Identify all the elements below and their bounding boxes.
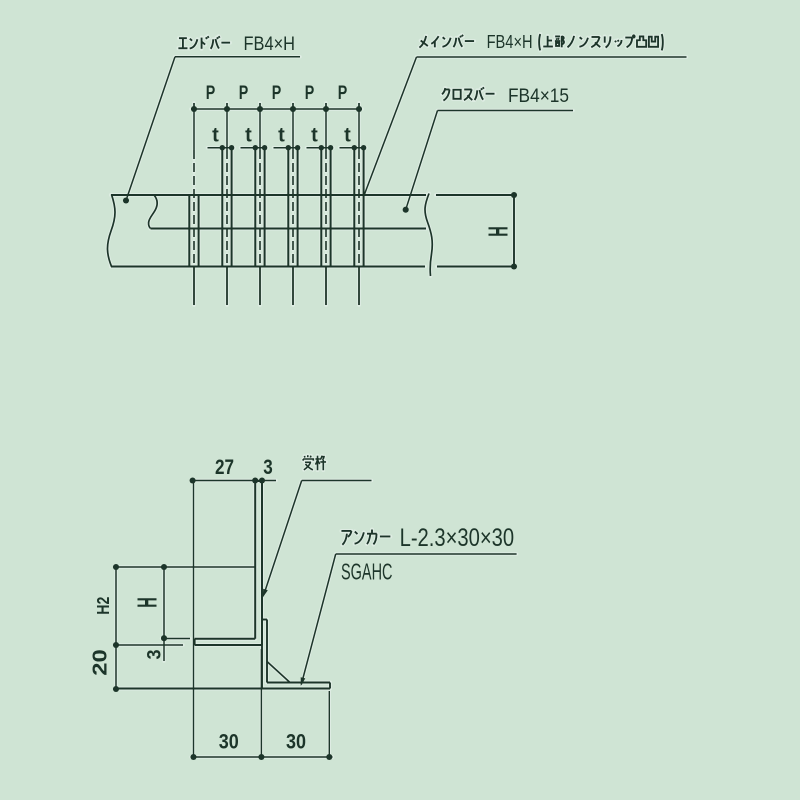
cross bar leader dot — [403, 207, 409, 213]
H2/20 dimension line — [115, 567, 117, 689]
H2 dim dot mid — [113, 642, 119, 648]
grating top reference line — [116, 566, 256, 568]
svg-text:27: 27 — [215, 455, 234, 479]
svg-text:t: t — [245, 125, 252, 147]
svg-text:H: H — [132, 597, 163, 608]
svg-text:FB4×15: FB4×15 — [508, 85, 569, 107]
t dim dot L bar5 — [319, 145, 324, 150]
cross bar top edge — [111, 194, 426, 196]
svg-text:30: 30 — [286, 730, 306, 754]
main bar 4 centerline ext — [292, 109, 294, 150]
27 dim dot left — [190, 477, 196, 483]
t dim dot R bar5 — [328, 145, 333, 150]
anchor vertical right edge — [266, 620, 268, 683]
svg-text:P: P — [272, 83, 282, 104]
3 dim dot right — [259, 477, 265, 483]
main bar 4 right edge — [297, 149, 299, 267]
svg-text:P: P — [338, 83, 348, 104]
ukewaku leader arrowhead — [263, 589, 268, 598]
svg-text:FB4×H: FB4×H — [244, 33, 296, 55]
main bar 6 left edge — [353, 149, 355, 267]
main bar 3 centerline tail — [259, 267, 261, 306]
H dimension line — [163, 567, 165, 661]
main bar 2 centerline ext — [226, 109, 228, 150]
frame horizontal leg bottom edge — [195, 644, 262, 646]
label main bar note kana — [539, 34, 540, 50]
svg-text:t: t — [311, 125, 318, 147]
main bar label underline — [417, 56, 687, 58]
label cross bar kana — [442, 88, 449, 100]
svg-text:3: 3 — [145, 650, 166, 660]
main bar 3 left edge — [254, 149, 256, 267]
main bar 1 right edge — [198, 195, 200, 267]
main bar 5 centerline dashed — [325, 150, 327, 267]
main bar 3 right edge — [264, 149, 266, 267]
svg-text:3: 3 — [263, 455, 273, 479]
t dim dot L bar6 — [352, 145, 357, 150]
anchor right end cap — [329, 683, 331, 689]
svg-text:P: P — [239, 83, 249, 104]
main bar 4 centerline dashed — [292, 150, 294, 267]
t dim dot R bar4 — [295, 145, 300, 150]
t dim dot L bar4 — [286, 145, 291, 150]
30-30 dimension line — [191, 756, 333, 758]
P dim dot x=326 — [323, 106, 329, 112]
P dim stub x=359 — [358, 103, 360, 109]
t dim line bar2 — [208, 147, 235, 149]
main bar 1 left edge — [188, 195, 190, 267]
main bar 6 centerline ext — [358, 109, 360, 150]
P dim stub x=326 — [325, 103, 327, 109]
svg-text:SGAHC: SGAHC — [341, 559, 393, 585]
anchor horizontal top edge — [267, 682, 330, 684]
main bar 1 centerline dashed — [193, 150, 195, 267]
P dim stub x=260 — [259, 103, 261, 109]
27-3 dimension line — [192, 480, 277, 482]
svg-text:t: t — [344, 125, 351, 147]
extension line left long — [193, 481, 195, 758]
anchor leader — [301, 554, 335, 685]
t dim dot L bar3 — [253, 145, 258, 150]
main bar 5 centerline tail — [325, 267, 327, 306]
H dim dot top — [161, 564, 167, 570]
svg-text:H: H — [483, 226, 514, 237]
main bar 2 right edge — [231, 149, 233, 267]
frame vertical leg left edge — [254, 481, 256, 639]
label anchor kana — [341, 531, 351, 545]
main bar 4 left edge — [287, 149, 289, 267]
main bar bottom edge — [111, 265, 425, 267]
27 dim dot right — [252, 477, 258, 483]
svg-text:30: 30 — [219, 730, 239, 754]
anchor top cap — [262, 619, 267, 621]
P dim dot x=194 — [191, 106, 197, 112]
frame vertical leg top cap — [255, 480, 262, 482]
main bar 1 centerline ext — [193, 109, 195, 150]
anchor bottom / ground line — [116, 688, 330, 690]
P dim stub x=194 — [193, 103, 195, 109]
svg-text:H2: H2 — [93, 596, 113, 614]
label main bar kana — [419, 36, 427, 48]
H dim end dot bottom — [511, 263, 517, 269]
label end bar kana — [178, 38, 187, 48]
main bar 6 centerline dashed — [358, 150, 360, 267]
t dim dot R bar3 — [262, 145, 267, 150]
cross bar leader — [406, 111, 438, 210]
frame vertical leg right edge — [261, 481, 263, 645]
main bar 5 centerline ext — [325, 109, 327, 150]
t dim line bar3 — [241, 147, 268, 149]
main bar 5 left edge — [320, 149, 322, 267]
t dim dot R bar6 — [361, 145, 366, 150]
H dim end dot top — [511, 192, 517, 198]
P dim dot x=359 — [356, 106, 362, 112]
frame horizontal leg top edge — [195, 638, 256, 640]
t dim line bar5 — [307, 147, 334, 149]
H2 dim dot bottom — [113, 686, 119, 692]
H dim dot at leg top — [161, 635, 167, 641]
end bar leader dot — [123, 197, 129, 203]
main bar 5 right edge — [330, 149, 332, 267]
P pitch dimension line — [191, 108, 362, 110]
left broken edge of end bar — [107, 195, 115, 267]
30 dim dot mid — [258, 754, 264, 760]
P dim dot x=260 — [257, 106, 263, 112]
right break line of grating — [425, 194, 432, 277]
P dim dot x=227 — [224, 106, 230, 112]
svg-text:20: 20 — [90, 649, 112, 676]
P dim stub x=293 — [292, 103, 294, 109]
svg-text:FB4×H: FB4×H — [487, 32, 533, 52]
main bar 3 centerline ext — [259, 109, 261, 150]
anchor vertical left edge — [261, 620, 263, 689]
main bar 3 centerline dashed — [259, 150, 261, 267]
H2 dim dot top — [113, 564, 119, 570]
main bar 2 centerline tail — [226, 267, 228, 306]
30 dim dot right — [326, 754, 332, 760]
ukewaku label underline — [302, 480, 372, 482]
cross bar bottom edge — [151, 227, 427, 229]
extension line anchor end — [328, 691, 330, 757]
main bar 1 centerline tail — [193, 267, 195, 306]
cross bar label underline — [438, 110, 574, 112]
main bar leader — [364, 57, 417, 196]
svg-text:L-2.3×30×30: L-2.3×30×30 — [400, 524, 514, 552]
end bar leader — [126, 57, 175, 201]
main bar 2 centerline dashed — [226, 150, 228, 267]
P dim stub x=227 — [226, 103, 228, 109]
extension line leg bottom — [115, 644, 183, 646]
frame horizontal leg tip — [194, 639, 196, 645]
P dim dot x=293 — [290, 106, 296, 112]
extension line frame right edge — [260, 649, 262, 757]
main bar bottom edge right of break — [437, 265, 514, 267]
anchor leader arrowhead — [301, 677, 306, 686]
main bar 6 right edge — [363, 149, 365, 267]
main bar 6 centerline tail — [358, 267, 360, 306]
anchor label underline — [336, 553, 517, 555]
svg-text:t: t — [212, 125, 219, 147]
30 dim dot left — [190, 754, 196, 760]
svg-text:t: t — [278, 125, 285, 147]
ukewaku leader — [264, 481, 302, 595]
t dim line bar4 — [274, 147, 301, 149]
grating top edge right of break — [436, 194, 514, 196]
label ukewaku kana — [303, 455, 313, 470]
break squiggle in end bar — [149, 196, 158, 229]
anchor weld fillet — [267, 662, 290, 683]
main bar 2 left edge — [221, 149, 223, 267]
t dim dot R bar2 — [229, 145, 234, 150]
end bar label underline — [175, 56, 300, 58]
extension line leg top — [162, 638, 191, 640]
H dimension line / right end — [513, 195, 515, 267]
main bar 4 centerline tail — [292, 267, 294, 306]
t dim dot L bar2 — [220, 145, 225, 150]
svg-text:P: P — [206, 83, 216, 104]
t dim line bar6 — [340, 147, 367, 149]
svg-text:P: P — [305, 83, 315, 104]
